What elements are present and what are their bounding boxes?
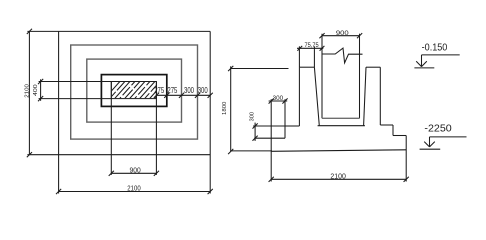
wire section slab right edge extended xyxy=(405,136,407,182)
wire section 300h tick right xyxy=(282,98,287,103)
wire plan outer square right edge extended to bottom dimension xyxy=(209,31,211,193)
wire plan 2100 tick left xyxy=(56,189,61,194)
wire plan 2100 vdim tick top xyxy=(27,29,32,34)
wire section wall left outer extension up xyxy=(298,46,300,67)
wire section 2100 tick right xyxy=(404,177,409,182)
svg-text:-0.150: -0.150 xyxy=(422,43,448,54)
wire section cup wall top left xyxy=(299,66,314,68)
svg-text:75,75: 75,75 xyxy=(305,43,320,49)
svg-text:2100: 2100 xyxy=(127,186,140,193)
wire plan outer square top edge with extension xyxy=(27,30,210,32)
node plan third square (gray) xyxy=(87,59,182,122)
node level symbol -0.150 xyxy=(422,54,460,56)
wire section cup wall top right xyxy=(366,66,380,68)
wire section 300 horizontal dimension line xyxy=(269,100,288,102)
wire section step1 left ext up xyxy=(284,99,286,126)
wire section 75 tick 2 xyxy=(320,46,325,51)
wire section column bottom xyxy=(322,117,360,119)
wire section 300 vertical dimension line xyxy=(254,123,256,141)
wire section cup inner face right xyxy=(364,67,366,126)
wire plan 400 dimension line xyxy=(40,79,42,101)
wire section step1 edge right xyxy=(392,125,394,136)
wire section 1800 tick top xyxy=(228,66,233,71)
wire section cup outer face right xyxy=(379,67,381,125)
wire plan column left edge extended down to 900 dim xyxy=(110,82,112,175)
wire section wall left inner extension up xyxy=(313,46,315,67)
wire section 900 dimension line xyxy=(322,35,360,37)
svg-text:1800: 1800 xyxy=(222,102,228,115)
wire plan 900 tick left xyxy=(109,171,114,176)
node level symbol -2250 xyxy=(430,136,467,138)
svg-text:300: 300 xyxy=(198,86,208,95)
wire section 75 75 dimension line xyxy=(297,47,323,49)
wire plan 275-300 dimension line xyxy=(156,94,210,96)
wire plan 275 tick 2 xyxy=(164,93,169,98)
wire section 1800 dimension line xyxy=(230,66,232,151)
wire plan band top extension line xyxy=(39,81,112,83)
node plan second square (gray) xyxy=(71,45,198,139)
svg-text:2100: 2100 xyxy=(25,84,31,98)
svg-text:275: 275 xyxy=(154,86,164,95)
wire plan 275 tick 5 xyxy=(208,93,213,98)
wire section column right edge xyxy=(359,34,361,119)
wire section 300v tick top xyxy=(253,123,258,128)
wire section step1 top ext left xyxy=(253,125,285,127)
wire section cup outer face left xyxy=(298,67,300,126)
wire section 900 tick right xyxy=(357,33,362,38)
wire plan 900 tick right xyxy=(154,171,159,176)
wire plan 900 dimension line xyxy=(111,172,156,174)
wire plan column right edge extended down to 900 dim xyxy=(155,82,157,175)
svg-text:900: 900 xyxy=(130,165,141,174)
wire section step2 top right xyxy=(393,135,406,137)
wire section 1800 top extension line xyxy=(231,68,289,70)
wire section break line xyxy=(322,48,363,63)
svg-text:300: 300 xyxy=(184,86,194,95)
wire section 1800 bottom extension line xyxy=(231,150,272,152)
wire section step1 edge left xyxy=(284,126,286,138)
wire section 300h tick left xyxy=(269,98,274,103)
wire section cup floor xyxy=(318,125,365,127)
wire plan 2100 tick right xyxy=(208,189,213,194)
wire section 1800 tick bottom xyxy=(228,149,233,154)
svg-text:-2250: -2250 xyxy=(424,123,452,134)
node plan inner square (thick) xyxy=(101,75,166,107)
wire plan 400 dim tick top xyxy=(38,79,43,84)
wire plan 2100 vertical dimension line xyxy=(28,31,30,154)
wire section step2 top left with extension xyxy=(254,137,285,139)
wire section slab left edge extended xyxy=(270,99,272,181)
node plan column hatched rectangle xyxy=(111,82,156,99)
wire plan outer square left edge extended to bottom dimension xyxy=(58,31,60,193)
wire plan 2100 vdim tick bottom xyxy=(27,152,32,157)
wire section 2100 dimension line xyxy=(271,178,406,180)
svg-text:2100: 2100 xyxy=(330,171,346,180)
wire section 75 tick 1 xyxy=(297,46,302,51)
wire plan 275 tick 1 xyxy=(154,93,159,98)
wire plan 275 tick 4 xyxy=(195,93,200,98)
svg-text:400: 400 xyxy=(33,84,39,96)
wire plan 2100 bottom dimension line xyxy=(59,191,211,193)
svg-text:900: 900 xyxy=(336,30,349,37)
wire section step1 top right xyxy=(380,124,393,126)
svg-text:300: 300 xyxy=(250,112,256,121)
wire section column left edge xyxy=(321,34,323,119)
wire plan outer square bottom edge with extension xyxy=(27,154,210,156)
wire hatch lines xyxy=(104,81,171,100)
wire section step1 top left xyxy=(285,125,299,127)
wire section 2100 tick left xyxy=(269,177,274,182)
wire section 900 tick left xyxy=(319,33,324,38)
wire section slab bottom xyxy=(271,150,406,152)
wire plan band bottom extension line xyxy=(39,98,112,100)
svg-text:300: 300 xyxy=(273,95,284,102)
wire plan 275 tick 3 xyxy=(179,93,184,98)
svg-text:275: 275 xyxy=(167,86,177,95)
wire plan 400 dim tick bottom xyxy=(38,96,43,101)
wire section 300v tick bottom xyxy=(253,136,258,141)
wire section cup inner face left xyxy=(314,67,319,126)
